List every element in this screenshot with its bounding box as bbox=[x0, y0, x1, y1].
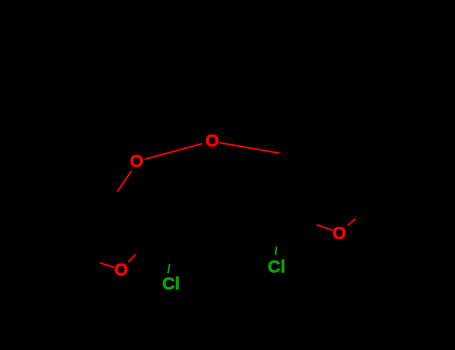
svg-text:Cl: Cl bbox=[268, 257, 286, 277]
wire bond O2-O1 (peroxide) bbox=[145, 144, 203, 160]
svg-text:O: O bbox=[130, 151, 144, 171]
wire bond O2 to ring carbon (lower-left) bbox=[117, 171, 131, 192]
wire bond O3 to carbon (left stub) bbox=[317, 225, 333, 231]
wire bond O4 to carbon (upper-right stub) bbox=[129, 254, 136, 262]
svg-text:O: O bbox=[333, 223, 347, 243]
wire bond O4 to methyl (left stub) bbox=[100, 263, 115, 268]
wire bond O3 to ethyl carbon (upper-right stub) bbox=[348, 219, 356, 226]
svg-text:O: O bbox=[205, 131, 219, 151]
wire bond C-Cl right (green stub) bbox=[275, 246, 276, 255]
svg-text:O: O bbox=[114, 260, 128, 280]
wire bond C-Cl left (green stub) bbox=[168, 264, 170, 273]
wire bond O1 to ring carbon (right) bbox=[220, 143, 280, 154]
svg-text:Cl: Cl bbox=[162, 274, 180, 294]
